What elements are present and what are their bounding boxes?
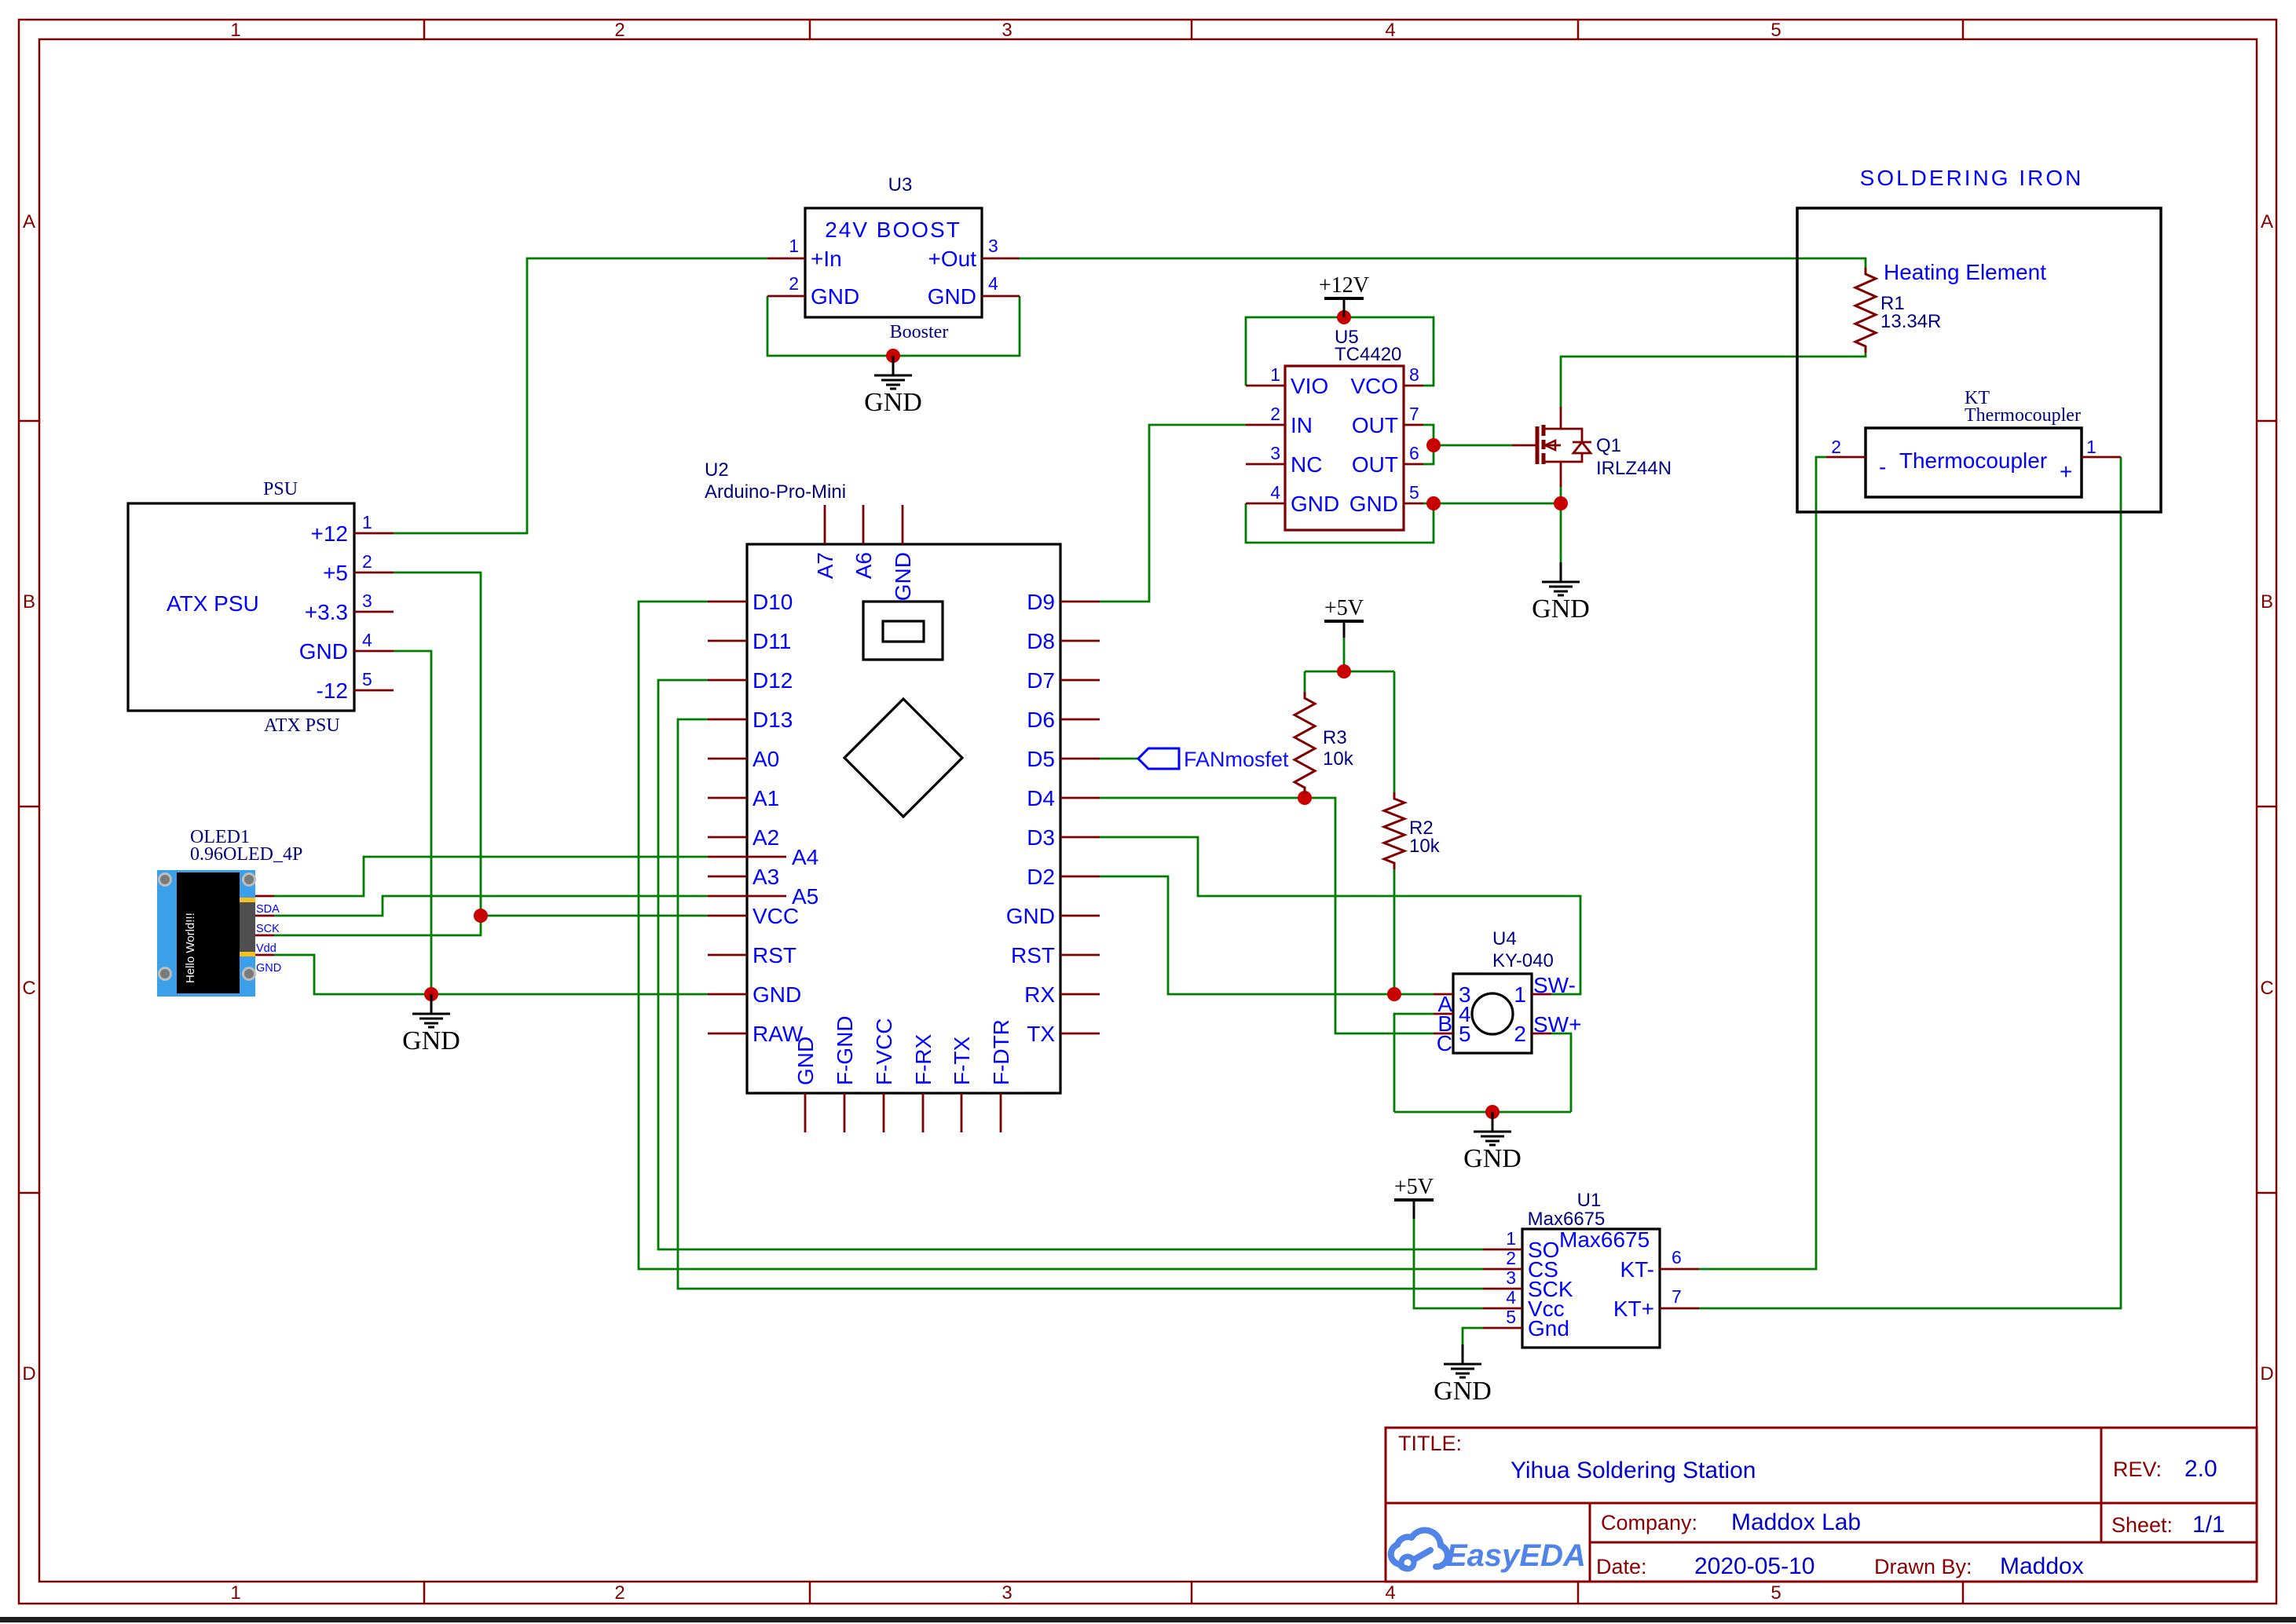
svg-text:NC: NC (1291, 452, 1322, 477)
power flag +5V near U1 (1394, 1175, 1434, 1200)
svg-text:3: 3 (1506, 1267, 1516, 1288)
KT thermocoupler component (1826, 388, 2121, 497)
svg-text:Thermocoupler: Thermocoupler (1965, 405, 2081, 426)
svg-text:2: 2 (789, 273, 799, 294)
svg-text:D7: D7 (1027, 668, 1055, 693)
pin RX of U2 right (1060, 993, 1100, 996)
svg-text:R3: R3 (1323, 727, 1347, 748)
pin A3 of U2 left (708, 876, 747, 878)
svg-text:2: 2 (614, 20, 624, 41)
wire U1 KT- to thermocoupler pin2 (1699, 457, 1826, 1269)
pin A5 of U2 inset (708, 895, 786, 898)
pin D10 of U2 left (708, 601, 747, 603)
svg-text:D6: D6 (1027, 708, 1055, 732)
pin 3 +Out of U3 (982, 258, 1020, 260)
svg-text:D11: D11 (753, 629, 791, 653)
wire U3 +Out to R1 top (1020, 258, 1866, 268)
svg-text:C: C (2260, 978, 2273, 999)
svg-text:D: D (2260, 1363, 2273, 1384)
svg-text:OUT: OUT (1352, 413, 1398, 437)
svg-text:2: 2 (1270, 404, 1280, 424)
junction R3 bottom / D4 (1298, 791, 1312, 805)
pin 2 CS of U1 (1483, 1268, 1522, 1271)
svg-text:GND: GND (1463, 1144, 1522, 1173)
svg-text:2020-05-10: 2020-05-10 (1694, 1553, 1814, 1579)
svg-text:KT+: KT+ (1613, 1297, 1654, 1321)
svg-text:B: B (23, 591, 35, 613)
svg-text:5: 5 (1459, 1022, 1471, 1046)
wire U5 OUT pins 7-6 tie (1423, 425, 1434, 464)
svg-text:+12V: +12V (1319, 273, 1369, 298)
U5 TC4420 mosfet driver (1246, 327, 1423, 530)
svg-text:Vdd: Vdd (256, 942, 276, 955)
pin F-TX of U2 bottom (961, 1093, 963, 1132)
pin TX of U2 right (1060, 1033, 1100, 1035)
svg-text:5: 5 (1506, 1307, 1516, 1327)
power flag +12V (1319, 273, 1369, 298)
svg-text:4: 4 (362, 630, 372, 650)
svg-text:4: 4 (1506, 1287, 1516, 1308)
svg-text:24V BOOST: 24V BOOST (825, 218, 961, 242)
svg-text:Maddox Lab: Maddox Lab (1731, 1509, 1861, 1535)
pin GND of U2 left (708, 993, 747, 996)
power flag +5V near R3 (1324, 596, 1364, 621)
svg-text:Gnd: Gnd (1528, 1316, 1569, 1341)
svg-text:1/1: 1/1 (2192, 1512, 2225, 1538)
svg-text:Date:: Date: (1596, 1555, 1647, 1578)
svg-text:GND: GND (811, 284, 859, 309)
svg-text:3: 3 (1002, 20, 1012, 41)
svg-text:EasyEDA: EasyEDA (1446, 1538, 1586, 1573)
svg-text:KY-040: KY-040 (1492, 950, 1554, 971)
pin 4 GND of PSU (354, 650, 394, 653)
svg-text:D5: D5 (1027, 747, 1055, 771)
wire Q1 source to GND (1560, 485, 1562, 562)
svg-text:13.34R: 13.34R (1880, 311, 1941, 332)
svg-text:PSU: PSU (263, 479, 298, 499)
diamond symbol (844, 699, 962, 817)
svg-text:REV:: REV: (2113, 1458, 2162, 1481)
ground left of Arduino (402, 994, 460, 1055)
svg-text:ATX PSU: ATX PSU (167, 591, 259, 616)
wire R2 leads (1393, 671, 1396, 792)
wire U5 OUT to Q1 gate (1434, 444, 1512, 447)
wire OLED SDA to Arduino A4 (274, 857, 708, 896)
svg-text:3: 3 (1002, 1582, 1012, 1604)
junction U3 GND (886, 349, 900, 363)
wire U4 SW+ to GND rail (1551, 1033, 1571, 1112)
svg-text:A: A (2261, 211, 2273, 232)
svg-text:1: 1 (1506, 1228, 1516, 1249)
svg-text:-12: -12 (317, 678, 348, 703)
svg-text:+3.3: +3.3 (305, 600, 348, 624)
wire D10 to U1 CS (639, 602, 1483, 1269)
pin D11 of U2 left (708, 640, 747, 642)
svg-text:U2: U2 (705, 459, 729, 481)
svg-text:SW+: SW+ (1533, 1012, 1581, 1037)
svg-text:RST: RST (753, 943, 796, 967)
svg-text:Thermocoupler: Thermocoupler (1899, 448, 2047, 473)
pin D7 of U2 right (1060, 679, 1100, 682)
svg-text:F-RX: F-RX (911, 1033, 936, 1085)
transistor Q1 IRLZ44N n-mosfet (1512, 407, 1672, 487)
pin A1 of U2 left (708, 797, 747, 799)
pin GND of OLED1 (255, 954, 274, 956)
svg-text:D13: D13 (753, 708, 793, 732)
svg-text:2: 2 (362, 551, 372, 572)
svg-text:5: 5 (1771, 1582, 1781, 1604)
svg-text:5: 5 (1409, 482, 1419, 503)
pin 7 KT+ of U1 (1660, 1308, 1699, 1310)
pin D6 of U2 right (1060, 719, 1100, 721)
pin 2 GND of U3 (767, 295, 805, 298)
svg-text:GND: GND (299, 639, 348, 664)
svg-text:F-VCC: F-VCC (872, 1018, 896, 1085)
wire D5 to FANmosfet flag (1100, 758, 1138, 760)
svg-text:TC4420: TC4420 (1335, 344, 1401, 365)
svg-text:F-GND: F-GND (833, 1015, 857, 1085)
svg-text:FANmosfet: FANmosfet (1184, 748, 1289, 771)
svg-text:5: 5 (1771, 20, 1781, 41)
pin RAW of U2 left (708, 1033, 747, 1035)
wire +5V net: PSU pin2 to OLED Vdd (274, 572, 481, 935)
pin 1 of thermocoupler (2082, 456, 2121, 459)
pin D5 of U2 right (1060, 758, 1100, 760)
svg-text:U3: U3 (888, 174, 913, 196)
svg-text:6: 6 (1409, 443, 1419, 463)
pin 1 SW- of U4 (1532, 993, 1551, 996)
ground under U3 booster (864, 356, 922, 417)
pin 4 B of U4 (1434, 1013, 1453, 1015)
svg-text:Maddox: Maddox (2000, 1553, 2084, 1579)
svg-text:GND: GND (1291, 492, 1339, 516)
wire +12V net: PSU pin1 to U3 +In (394, 258, 767, 533)
svg-text:5: 5 (362, 669, 372, 689)
svg-text:D9: D9 (1027, 590, 1055, 614)
svg-text:D10: D10 (753, 590, 793, 614)
svg-text:+12: +12 (311, 521, 349, 546)
resistor R1 13.34R heating element (1855, 260, 2046, 353)
U2 Arduino-Pro-Mini (705, 459, 1100, 1132)
svg-text:C: C (22, 978, 35, 999)
pin GND of U2 top (902, 505, 904, 544)
svg-text:VIO: VIO (1291, 374, 1328, 398)
pin 1 VIO of U5 (1246, 385, 1285, 387)
svg-text:+5V: +5V (1394, 1175, 1434, 1199)
soldering iron assembly box (1797, 166, 2161, 512)
svg-text:GND: GND (864, 388, 922, 417)
pin 1 SO of U1 (1483, 1249, 1522, 1251)
svg-text:10k: 10k (1323, 748, 1354, 770)
svg-text:+: + (2060, 459, 2072, 484)
svg-text:GND: GND (256, 962, 281, 975)
svg-text:F-TX: F-TX (950, 1036, 974, 1085)
pin A0 of U2 left (708, 758, 747, 760)
wire U1 KT+ to thermocoupler pin1 (1699, 457, 2121, 1308)
svg-text:D3: D3 (1027, 825, 1055, 850)
pin D12 of U2 left (708, 679, 747, 682)
svg-text:Max6675: Max6675 (1528, 1209, 1606, 1230)
svg-text:A3: A3 (753, 865, 779, 889)
pin 2 +5 of PSU (354, 572, 394, 574)
svg-text:F-DTR: F-DTR (989, 1019, 1013, 1085)
pin D4 of U2 right (1060, 797, 1100, 799)
node FANmosfet net label (1138, 748, 1289, 771)
junction R2 bottom / D2 (1387, 987, 1401, 1001)
U3 24V boost converter module (767, 174, 1020, 342)
resistor R3 10k (1294, 692, 1354, 794)
pin F-VCC of U2 bottom (883, 1093, 885, 1132)
wire U4 pin4 B to GND rail (1394, 1014, 1434, 1112)
pin Vdd of OLED1 (255, 935, 274, 937)
svg-text:1: 1 (2086, 437, 2096, 457)
svg-text:GND: GND (1532, 594, 1590, 624)
svg-text:Hello World!!!: Hello World!!! (184, 913, 197, 983)
ground under U4 (1463, 1112, 1522, 1173)
wire GND net: PSU pin4 down (394, 651, 431, 994)
PSU ATX power supply block (128, 479, 394, 736)
title block (1386, 1428, 2257, 1582)
svg-text:GND: GND (1006, 904, 1055, 928)
svg-text:ATX PSU: ATX PSU (264, 715, 340, 736)
svg-text:1: 1 (230, 1582, 240, 1604)
svg-text:TX: TX (1027, 1022, 1055, 1046)
svg-text:GND: GND (1434, 1377, 1492, 1406)
svg-text:2: 2 (614, 1582, 624, 1604)
svg-text:Yihua Soldering Station: Yihua Soldering Station (1511, 1458, 1756, 1483)
pin F-RX of U2 bottom (922, 1093, 925, 1132)
svg-text:D2: D2 (1027, 865, 1055, 889)
pin GND of U2 bottom (804, 1093, 807, 1132)
pin D2 of U2 right (1060, 876, 1100, 878)
svg-text:D12: D12 (753, 668, 793, 693)
pin 1 +12 of PSU (354, 532, 394, 535)
EasyEDA logo (1391, 1531, 1586, 1573)
pin 5 -12 of PSU (354, 689, 394, 692)
svg-text:+Out: +Out (928, 247, 977, 271)
pin 1 +In of U3 (767, 258, 805, 260)
svg-text:Booster: Booster (890, 322, 949, 342)
pin D3 of U2 right (1060, 836, 1100, 839)
svg-text:4: 4 (1270, 482, 1280, 503)
svg-text:A: A (23, 211, 35, 232)
pin 3 SCK of U1 (1483, 1288, 1522, 1290)
wire R1 bottom to Q1 drain (1561, 353, 1866, 407)
svg-text:D4: D4 (1027, 786, 1055, 810)
wire D4 to U4 pin5 C (1100, 798, 1434, 1033)
pin D8 of U2 right (1060, 640, 1100, 642)
svg-text:RX: RX (1024, 982, 1055, 1007)
pin 4 Vcc of U1 (1483, 1308, 1522, 1310)
junction Q1 source GND node (1554, 496, 1568, 510)
pin F-DTR of U2 bottom (1000, 1093, 1002, 1132)
pin F-GND of U2 bottom (844, 1093, 846, 1132)
pin 3 +3.3 of PSU (354, 611, 394, 613)
wire D12 to U1 SO (658, 680, 1483, 1249)
wire D9 to U5 IN (1100, 425, 1246, 602)
pin 5 Gnd of U1 (1483, 1327, 1522, 1330)
svg-text:1: 1 (789, 236, 799, 256)
svg-text:Arduino-Pro-Mini: Arduino-Pro-Mini (705, 481, 846, 503)
wire U5 GND loop pin4-pin5 (1246, 503, 1434, 543)
svg-text:A4: A4 (792, 845, 818, 869)
pin 5 GND of U5 (1404, 503, 1423, 505)
svg-text:Q1: Q1 (1596, 435, 1621, 456)
USB connector symbol (863, 602, 943, 660)
pin 2 IN of U5 (1246, 424, 1285, 426)
wire D2 to U4 pin3 A (1100, 876, 1434, 994)
svg-text:4: 4 (1385, 1582, 1395, 1604)
wire OLED GND to Arduino GND (274, 955, 708, 994)
OLED1 0.96 inch display module (157, 827, 302, 997)
svg-text:1: 1 (230, 20, 240, 41)
ground under U1 (1434, 1344, 1492, 1406)
svg-text:7: 7 (1409, 404, 1419, 424)
svg-text:U4: U4 (1492, 928, 1517, 949)
pin GND of U2 right (1060, 915, 1100, 917)
svg-text:TITLE:: TITLE: (1398, 1432, 1462, 1455)
svg-text:A2: A2 (753, 825, 779, 850)
svg-text:SOLDERING IRON: SOLDERING IRON (1860, 166, 2084, 190)
pin 3 NC of U5 (1246, 463, 1285, 466)
svg-text:GND: GND (1349, 492, 1398, 516)
svg-text:3: 3 (988, 236, 998, 256)
svg-text:-: - (1879, 455, 1886, 479)
wire +5V branch to Arduino VCC (481, 915, 708, 917)
svg-text:Company:: Company: (1601, 1511, 1697, 1534)
svg-text:0.96OLED_4P: 0.96OLED_4P (190, 844, 302, 865)
pin 3 A of U4 (1434, 993, 1453, 996)
pin 2 of thermocoupler (1826, 456, 1866, 459)
svg-text:4: 4 (1385, 20, 1395, 41)
svg-text:3: 3 (362, 591, 372, 611)
junction +5V / VCC node (474, 909, 488, 923)
pin RST of U2 right (1060, 954, 1100, 956)
svg-text:SW-: SW- (1533, 973, 1576, 997)
pin A7 of U2 top (824, 505, 826, 544)
svg-text:Heating Element: Heating Element (1884, 260, 2046, 284)
svg-text:10k: 10k (1409, 836, 1441, 857)
pin D9 of U2 right (1060, 601, 1100, 603)
junction U4 GND rail (1485, 1105, 1500, 1119)
svg-text:1: 1 (1514, 982, 1526, 1007)
junction GND node left (424, 987, 438, 1001)
svg-text:RST: RST (1011, 943, 1055, 967)
svg-text:8: 8 (1409, 364, 1419, 385)
pin 7 OUT of U5 (1404, 424, 1423, 426)
pin A6 of U2 top (862, 505, 865, 544)
pin SCK of OLED1 (255, 915, 274, 917)
svg-text:A0: A0 (753, 747, 779, 771)
wire U3 GND loop pin2-pin4 (767, 296, 1020, 356)
junction +5V rail node (1337, 664, 1351, 678)
pin A4 of U2 inset (708, 856, 786, 858)
wire U1 Gnd to GND (1463, 1328, 1483, 1344)
pin 6 KT- of U1 (1660, 1268, 1699, 1271)
wire D13 to U1 SCK (678, 719, 1483, 1289)
svg-text:KT-: KT- (1620, 1257, 1654, 1282)
wire +12V rail over U5: VIO pin1 to VCO pin8 (1246, 317, 1434, 386)
svg-text:GND: GND (928, 284, 976, 309)
svg-text:3: 3 (1270, 443, 1280, 463)
svg-text:IN: IN (1291, 413, 1313, 437)
wire +5V to U1 Vcc (1414, 1219, 1483, 1308)
svg-text:7: 7 (1672, 1286, 1682, 1307)
svg-text:A5: A5 (792, 884, 818, 909)
pin VCC of U2 left (708, 915, 747, 917)
pin 6 OUT of U5 (1404, 463, 1423, 466)
svg-text:GND: GND (891, 552, 915, 601)
svg-text:GND: GND (753, 982, 801, 1007)
svg-text:A7: A7 (813, 552, 837, 579)
wire OLED SCK to Arduino A5 (274, 896, 708, 916)
pin 4 GND of U5 (1246, 503, 1285, 505)
pin SDA of OLED1 (255, 895, 274, 898)
pin 4 GND of U3 (982, 295, 1020, 298)
svg-text:D: D (22, 1363, 35, 1384)
ground under Q1 (1532, 562, 1590, 624)
svg-text:A6: A6 (851, 552, 876, 579)
pin A2 of U2 left (708, 836, 747, 839)
svg-text:6: 6 (1672, 1247, 1682, 1267)
svg-text:A1: A1 (753, 786, 779, 810)
svg-text:D8: D8 (1027, 629, 1055, 653)
pin 5 C of U4 (1434, 1033, 1453, 1035)
svg-text:2: 2 (1514, 1022, 1526, 1046)
svg-text:OUT: OUT (1352, 452, 1398, 477)
svg-text:1: 1 (1270, 364, 1280, 385)
svg-text:IRLZ44N: IRLZ44N (1596, 458, 1672, 479)
wire U4 GND rail (1394, 1111, 1571, 1114)
svg-text:4: 4 (988, 273, 998, 294)
svg-text:GND: GND (793, 1037, 818, 1085)
svg-text:Max6675: Max6675 (1559, 1227, 1650, 1252)
pin RST of U2 left (708, 954, 747, 956)
svg-text:B: B (2261, 591, 2273, 613)
svg-text:+5V: +5V (1324, 596, 1364, 620)
resistor R2 10k (1384, 792, 1441, 869)
svg-text:C: C (1437, 1031, 1452, 1055)
svg-text:VCO: VCO (1350, 374, 1398, 398)
wire +5V rail R3/R2 (1343, 638, 1346, 671)
U4 KY-040 rotary encoder (1434, 928, 1581, 1055)
junction +12V at U5 rail (1337, 310, 1351, 324)
svg-text:2: 2 (1506, 1248, 1516, 1268)
svg-text:SDA: SDA (256, 903, 280, 916)
wire D3 to U4 SW- (1100, 837, 1580, 994)
svg-text:1: 1 (362, 512, 372, 532)
svg-text:2.0: 2.0 (2184, 1456, 2217, 1482)
wire R3 leads (1304, 671, 1306, 692)
svg-text:U1: U1 (1577, 1190, 1602, 1211)
svg-text:+5: +5 (323, 561, 348, 585)
svg-text:Sheet:: Sheet: (2111, 1513, 2173, 1537)
wire U5 pin5 to Q1 source node (1434, 503, 1561, 505)
svg-text:Drawn By:: Drawn By: (1874, 1555, 1972, 1578)
pin 2 SW+ of U4 (1532, 1033, 1551, 1035)
svg-text:2: 2 (1831, 437, 1841, 457)
junction U5 OUT node (1426, 438, 1441, 452)
svg-text:+In: +In (811, 247, 842, 271)
U1 Max6675 thermocouple ADC (1483, 1190, 1699, 1348)
junction U5 GND node (1426, 496, 1441, 510)
pin 8 VCO of U5 (1404, 385, 1423, 387)
svg-text:SCK: SCK (256, 923, 280, 935)
pin D13 of U2 left (708, 719, 747, 721)
svg-text:GND: GND (402, 1026, 460, 1055)
